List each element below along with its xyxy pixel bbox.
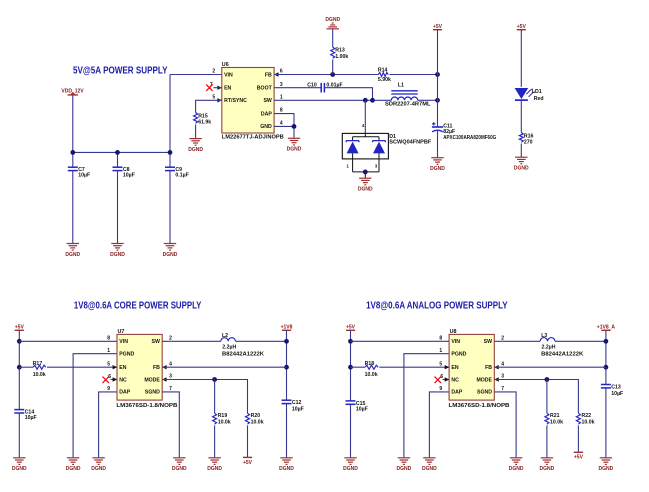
wire SW to D1 pin 4 — [364, 100, 366, 133]
wire FB pin 4 to output core — [162, 366, 286, 368]
wire C9 to DGND — [169, 171, 171, 244]
svg-text:LD1: LD1 — [532, 89, 542, 95]
svg-text:SGND: SGND — [145, 390, 160, 396]
U6 pin names — [224, 72, 273, 130]
no-connect X on NC pin 6 core — [103, 377, 109, 383]
svg-text:VIN: VIN — [224, 72, 233, 78]
svg-text:SGND: SGND — [477, 390, 492, 396]
svg-text:4: 4 — [280, 121, 283, 127]
junction FB/R13 — [330, 72, 335, 77]
U8 pin names — [451, 339, 492, 396]
svg-text:PGND: PGND — [451, 352, 466, 358]
svg-text:SCWQ04FNPBF: SCWQ04FNPBF — [389, 140, 431, 146]
junction MODE/R21 — [545, 377, 550, 382]
svg-text:DGND: DGND — [207, 466, 222, 472]
svg-text:LM22677TJ-ADJ/NOPB: LM22677TJ-ADJ/NOPB — [222, 135, 284, 141]
ground DGND under C8 — [110, 244, 125, 258]
wire +5V to VIN pin 8 core — [19, 340, 117, 342]
U6 input pin arrows — [217, 72, 278, 102]
svg-text:SW: SW — [152, 339, 160, 345]
svg-text:BOOT: BOOT — [257, 86, 273, 92]
svg-text:82µF: 82µF — [443, 129, 455, 135]
wire GND pin to DGND — [274, 126, 294, 138]
svg-text:DGND: DGND — [358, 187, 373, 193]
svg-text:+1V8: +1V8 — [281, 325, 293, 331]
inductor L1 — [391, 91, 417, 101]
wire R21 to DGND — [546, 425, 548, 457]
capacitor C10 — [321, 83, 324, 93]
junction SW/output analog — [604, 339, 609, 344]
svg-text:6: 6 — [108, 374, 111, 380]
svg-text:1V8@0.6A CORE POWER SUPPLY: 1V8@0.6A CORE POWER SUPPLY — [74, 300, 202, 311]
wire C15 to DGND — [350, 404, 352, 458]
wire SGND pin 7 to DGND analog — [494, 392, 516, 458]
label R18 10.0k — [365, 361, 378, 378]
wire R16 to DGND — [520, 144, 522, 158]
svg-text:MODE: MODE — [144, 377, 160, 383]
wire DAP pin 9 to DGND analog — [429, 392, 449, 458]
svg-text:10µF: 10µF — [25, 415, 37, 421]
wire EN stub — [214, 87, 222, 89]
svg-text:R15: R15 — [198, 113, 208, 119]
ground DGND for DAP analog — [422, 458, 437, 472]
wire DAP to GND node — [274, 114, 294, 127]
svg-text:+5V: +5V — [433, 24, 443, 30]
U7 pin names — [119, 339, 160, 396]
wire DAP pin 9 to DGND core — [99, 392, 117, 458]
wire FB pin 4 to output analog — [494, 366, 606, 368]
label R15 61.9k — [198, 113, 211, 125]
wire R13 to FB net — [332, 60, 334, 75]
svg-text:+5V: +5V — [15, 325, 25, 331]
wire +5V column analog — [350, 330, 352, 401]
svg-text:FB: FB — [153, 365, 160, 371]
junction VIN/+5V analog — [348, 339, 353, 344]
ground DGND under R21 — [540, 458, 555, 472]
svg-text:DAP: DAP — [119, 390, 130, 396]
resistor R21 — [545, 413, 549, 424]
svg-text:APXC100ARA820MF60G: APXC100ARA820MF60G — [443, 135, 496, 141]
resistor R16 — [519, 133, 523, 143]
wire VIN corner down to C9 — [169, 75, 171, 168]
capacitor C11 (polarized) — [432, 122, 443, 132]
regulator U7 LM3676SD-1.8/NOPB body — [116, 329, 177, 409]
U7 input pin arrows — [113, 365, 167, 382]
label R17 10.0k — [33, 361, 46, 378]
svg-text:10.0k: 10.0k — [365, 372, 378, 378]
ground DGND under R19 — [207, 458, 222, 472]
wire MODE pin 3 to R20 — [162, 380, 247, 414]
U7 pin numbers — [107, 335, 172, 392]
label C11 82uF APXC100ARA820MF60G — [443, 124, 496, 141]
svg-text:R14: R14 — [378, 68, 388, 74]
svg-text:SW: SW — [263, 98, 271, 104]
wire RT/SYNC to R15 — [196, 100, 222, 112]
ground DGND under R15 — [188, 139, 203, 153]
wire C10 to SW node — [324, 88, 372, 101]
svg-text:DGND: DGND — [172, 466, 187, 472]
wire +5V to R18 analog — [351, 366, 365, 368]
svg-text:10.0k: 10.0k — [218, 419, 231, 425]
svg-text:2: 2 — [212, 69, 215, 75]
ground DGND under C12 — [279, 458, 294, 472]
svg-text:NC: NC — [451, 377, 459, 383]
svg-text:U6: U6 — [222, 62, 229, 68]
label C9 0.1uF — [175, 167, 188, 178]
label R13 1.00k — [335, 47, 348, 59]
wire PGND pin 1 to DGND analog — [404, 354, 449, 458]
label L1 SDR2207-4R7ML — [385, 83, 431, 108]
svg-text:4: 4 — [501, 361, 504, 367]
wire L1 to +5V column — [418, 99, 438, 101]
wire SW to L1 — [274, 99, 391, 101]
svg-text:8: 8 — [107, 335, 110, 341]
label C14 10µF — [25, 410, 37, 422]
resistor R22 — [576, 413, 580, 424]
power flag +5V input analog — [346, 325, 356, 331]
svg-text:270: 270 — [524, 139, 533, 145]
wire R14 to +5V column — [390, 74, 438, 76]
svg-text:5: 5 — [212, 94, 215, 100]
junction EN/+5V analog — [348, 365, 353, 370]
svg-text:DGND: DGND — [163, 252, 178, 258]
ground DGND for PGND analog — [397, 458, 412, 472]
regulator U8 LM3676SD-1.8/NOPB body — [449, 329, 510, 409]
ground DGND for DAP core — [91, 458, 106, 472]
svg-text:LM3676SD-1.8/NOPB: LM3676SD-1.8/NOPB — [449, 403, 510, 409]
svg-text:VDD_12V: VDD_12V — [61, 88, 84, 94]
capacitor C13 — [601, 385, 611, 388]
svg-text:DGND: DGND — [66, 466, 81, 472]
svg-text:DGND: DGND — [65, 252, 80, 258]
wire output column analog — [605, 330, 607, 384]
svg-text:DGND: DGND — [287, 147, 302, 153]
svg-text:R22: R22 — [582, 413, 592, 419]
wire FB to R14 — [274, 74, 378, 76]
power flag +5V below R22 — [574, 452, 584, 460]
resistor R18 — [365, 365, 378, 369]
svg-text:DGND: DGND — [422, 466, 437, 472]
wire +5V column down to C11 — [437, 30, 439, 127]
svg-text:DGND: DGND — [430, 166, 445, 172]
svg-text:RT/SYNC: RT/SYNC — [224, 98, 247, 104]
wire SW pin 2 to L3 — [494, 340, 540, 342]
svg-text:B82442A1222K: B82442A1222K — [222, 351, 264, 357]
svg-text:PGND: PGND — [119, 352, 134, 358]
wire +5V column core — [18, 330, 20, 409]
wire L2 to output — [236, 340, 287, 342]
op-amp/regulator U6 LM22677TJ-ADJ/NOPB body — [222, 62, 284, 141]
svg-text:1: 1 — [107, 348, 110, 354]
svg-text:EN: EN — [224, 86, 231, 92]
wire +5V to VIN pin 8 analog — [351, 340, 450, 342]
svg-text:R20: R20 — [251, 413, 261, 419]
svg-text:R18: R18 — [365, 361, 375, 367]
power flag +5V below R20 — [243, 457, 253, 465]
svg-text:DAP: DAP — [451, 390, 462, 396]
wire C12 to DGND — [286, 404, 288, 458]
svg-text:2.2µH: 2.2µH — [542, 344, 556, 350]
wire down to R19 — [214, 380, 216, 414]
svg-text:2.2µH: 2.2µH — [222, 344, 236, 350]
ground DGND under C13 — [599, 458, 614, 472]
svg-text:8: 8 — [439, 335, 442, 341]
wire VDD_12V down to C7 — [72, 95, 74, 167]
svg-text:DGND: DGND — [110, 252, 125, 258]
label L2 2.2µH B82442A1222K — [222, 333, 264, 357]
svg-text:1.00k: 1.00k — [335, 54, 348, 60]
junction C8/bus — [115, 150, 120, 155]
svg-text:+5V: +5V — [243, 460, 253, 466]
ground DGND under C9 — [163, 244, 178, 258]
wire DGND to R13 — [332, 29, 334, 47]
resistor R19 — [213, 413, 217, 424]
wire C11 to DGND — [437, 131, 439, 158]
junction R14/+5V — [435, 72, 440, 77]
wire input bus — [73, 151, 170, 153]
svg-text:0.1µF: 0.1µF — [175, 173, 188, 179]
svg-text:MODE: MODE — [476, 377, 492, 383]
junction SW/C10 — [370, 98, 375, 103]
svg-text:R19: R19 — [218, 413, 228, 419]
wire MODE pin 3 to R22 — [494, 380, 578, 414]
junction VIN/+5V core — [17, 339, 22, 344]
wire NC stub core — [111, 379, 118, 381]
svg-text:3: 3 — [501, 374, 504, 380]
wire SGND pin 7 to DGND core — [162, 392, 179, 458]
svg-text:10µF: 10µF — [123, 173, 135, 179]
inductor L2 — [221, 338, 236, 342]
wire R15 to DGND — [195, 125, 197, 139]
svg-text:DGND: DGND — [12, 466, 27, 472]
svg-text:3: 3 — [280, 82, 283, 88]
ground DGND under C14 — [12, 458, 27, 472]
svg-text:SW: SW — [484, 339, 492, 345]
junction DAP/GND — [292, 124, 297, 129]
svg-text:9: 9 — [107, 386, 110, 392]
junction L1/+5V — [435, 98, 440, 103]
svg-text:10µF: 10µF — [78, 173, 90, 179]
label LD1 Red — [532, 89, 544, 102]
diode D1 SCWQ04FNPBF (dual, common cathode) — [342, 123, 388, 159]
label R14 5.90k — [378, 68, 391, 83]
svg-text:R17: R17 — [33, 361, 43, 367]
wire +5V to LD1 — [520, 30, 522, 87]
svg-text:+5V: +5V — [574, 455, 584, 461]
svg-text:DGND: DGND — [514, 166, 529, 172]
wire C7 to DGND — [72, 171, 74, 244]
D1 anode legs to DGND — [353, 153, 379, 178]
label C13 10µF — [611, 384, 623, 397]
wire down to R21 — [546, 380, 548, 414]
svg-text:10µF: 10µF — [356, 406, 368, 412]
svg-text:DGND: DGND — [91, 466, 106, 472]
wire PGND pin 1 to DGND core — [73, 354, 117, 458]
svg-text:10.0k: 10.0k — [582, 419, 595, 425]
svg-text:VIN: VIN — [119, 339, 128, 345]
svg-text:8: 8 — [280, 108, 283, 114]
U8 pin numbers — [439, 335, 504, 392]
svg-text:4: 4 — [169, 361, 172, 367]
wire BOOT to C10 — [274, 87, 321, 89]
svg-text:VIN: VIN — [451, 339, 460, 345]
svg-text:6: 6 — [440, 374, 443, 380]
svg-text:2: 2 — [501, 335, 504, 341]
svg-text:9: 9 — [439, 386, 442, 392]
svg-text:10.0k: 10.0k — [33, 372, 46, 378]
junction EN/+5V core — [17, 365, 22, 370]
capacitor C8 — [113, 167, 123, 170]
label R21 10.0k — [550, 413, 563, 425]
ground DGND under C11 — [430, 158, 445, 172]
svg-text:+1V8_A: +1V8_A — [597, 325, 616, 331]
power flag +5V LED branch — [517, 24, 527, 30]
svg-text:Red: Red — [534, 96, 544, 102]
U8 input pin arrows — [445, 365, 499, 382]
label R16 270 — [524, 134, 534, 146]
label C7 10uF — [78, 167, 90, 178]
wire R22 to +5V flag — [577, 425, 579, 452]
junction FB/output analog — [604, 365, 609, 370]
svg-text:1: 1 — [439, 348, 442, 354]
resistor R15 — [194, 113, 198, 124]
junction C9/bus — [168, 150, 173, 155]
wire C13 to DGND — [605, 388, 607, 458]
ground DGND under C7 — [65, 244, 80, 258]
wire NC stub analog — [443, 379, 450, 381]
label L3 2.2µH B82442A1222K — [541, 333, 583, 357]
svg-text:1: 1 — [280, 94, 283, 100]
svg-text:SDR2207-4R7ML: SDR2207-4R7ML — [385, 102, 431, 108]
junction FB/output core — [284, 365, 289, 370]
wire R18 to EN pin 5 analog — [379, 366, 449, 368]
label C10 0.01uF — [307, 82, 342, 88]
capacitor C12 — [282, 400, 292, 403]
svg-text:R13: R13 — [335, 47, 345, 53]
label R20 10.0k — [251, 413, 264, 425]
U6 pin numbers — [210, 69, 283, 127]
ground DGND for PGND core — [66, 458, 81, 472]
svg-text:FB: FB — [485, 365, 492, 371]
svg-text:10µF: 10µF — [611, 391, 623, 397]
svg-text:GND: GND — [260, 124, 272, 130]
label C8 10uF — [123, 167, 135, 178]
LED LD1 Red — [515, 88, 535, 100]
label R22 10.0k — [582, 413, 595, 425]
svg-text:L2: L2 — [222, 333, 228, 339]
wire L3 to output — [555, 340, 606, 342]
svg-text:61.9k: 61.9k — [198, 120, 211, 126]
svg-text:DGND: DGND — [509, 466, 524, 472]
svg-text:NC: NC — [119, 377, 127, 383]
svg-text:FB: FB — [265, 72, 272, 78]
capacitor C9 — [165, 167, 175, 170]
svg-text:U7: U7 — [118, 329, 125, 335]
svg-text:7: 7 — [501, 386, 504, 392]
wire bus to C8 — [117, 152, 119, 167]
svg-text:C13: C13 — [611, 384, 621, 390]
svg-text:3: 3 — [169, 374, 172, 380]
svg-text:R21: R21 — [550, 413, 560, 419]
power flag VDD_12V — [61, 88, 84, 95]
ground DGND under R16 — [514, 157, 529, 171]
svg-text:B82442A1222K: B82442A1222K — [541, 351, 583, 357]
label R19 10.0k — [218, 413, 231, 425]
svg-text:DGND: DGND — [540, 466, 555, 472]
power flag +1V8 — [281, 325, 293, 331]
ground DGND above R13 — [325, 17, 340, 29]
svg-text:7: 7 — [169, 386, 172, 392]
svg-text:U8: U8 — [450, 329, 457, 335]
svg-text:5: 5 — [439, 361, 442, 367]
wire R19 to DGND — [214, 425, 216, 457]
power flag +1V8_A — [597, 325, 616, 331]
svg-text:DGND: DGND — [599, 466, 614, 472]
svg-text:DGND: DGND — [325, 17, 340, 23]
wire SW pin 2 to L2 — [162, 340, 221, 342]
junction SW/output core — [284, 339, 289, 344]
svg-text:1V8@0.6A ANALOG POWER SUPPLY: 1V8@0.6A ANALOG POWER SUPPLY — [366, 300, 508, 311]
svg-text:+5V: +5V — [517, 24, 527, 30]
svg-text:DAP: DAP — [261, 111, 272, 117]
wire R17 to EN pin 5 core — [47, 366, 117, 368]
resistor R17 — [33, 365, 46, 369]
resistor R14 — [378, 73, 388, 77]
power flag +5V main output — [433, 24, 443, 30]
svg-text:EN: EN — [451, 365, 458, 371]
svg-text:6: 6 — [280, 69, 283, 75]
no-connect X on U6 EN pin 7 — [206, 85, 212, 91]
svg-text:10µF: 10µF — [292, 407, 304, 413]
resistor R20 — [246, 413, 250, 424]
wire C8 to DGND — [117, 171, 119, 244]
label C15 10µF — [356, 401, 368, 413]
wire LD1 to R16 — [520, 101, 522, 133]
ground DGND under C15 — [343, 458, 358, 472]
inductor L3 — [540, 338, 555, 342]
junction MODE/R19 — [212, 377, 217, 382]
wire +5V to R17 core — [19, 366, 33, 368]
no-connect X on NC pin 6 analog — [435, 377, 441, 383]
svg-text:DGND: DGND — [397, 466, 412, 472]
svg-text:2: 2 — [169, 335, 172, 341]
junction C7/bus — [70, 150, 75, 155]
ground DGND under U6 — [287, 138, 302, 152]
label C12 10µF — [292, 400, 304, 413]
svg-text:C12: C12 — [292, 400, 302, 406]
svg-text:DGND: DGND — [343, 466, 358, 472]
svg-text:C10: C10 — [307, 82, 317, 88]
wire R20 to +5V flag — [247, 425, 249, 457]
wire output column core — [286, 330, 288, 400]
ground DGND for SGND analog — [509, 458, 524, 472]
svg-text:5.90k: 5.90k — [378, 77, 391, 83]
wire C14 to DGND — [18, 413, 20, 458]
svg-text:DGND: DGND — [279, 466, 294, 472]
svg-text:LM3676SD-1.8/NOPB: LM3676SD-1.8/NOPB — [116, 403, 177, 409]
junction D1 anodes — [363, 170, 368, 175]
D1 labels — [389, 134, 431, 145]
capacitor C14 — [14, 410, 24, 413]
resistor R13 — [331, 47, 335, 58]
svg-text:10.0k: 10.0k — [550, 419, 563, 425]
capacitor C7 — [68, 167, 78, 170]
svg-text:5V@5A POWER SUPPLY: 5V@5A POWER SUPPLY — [73, 65, 168, 76]
capacitor C15 — [346, 401, 356, 404]
power flag +5V input core — [15, 325, 25, 331]
wire to VIN pin 2 — [170, 74, 222, 76]
svg-text:+5V: +5V — [346, 325, 356, 331]
